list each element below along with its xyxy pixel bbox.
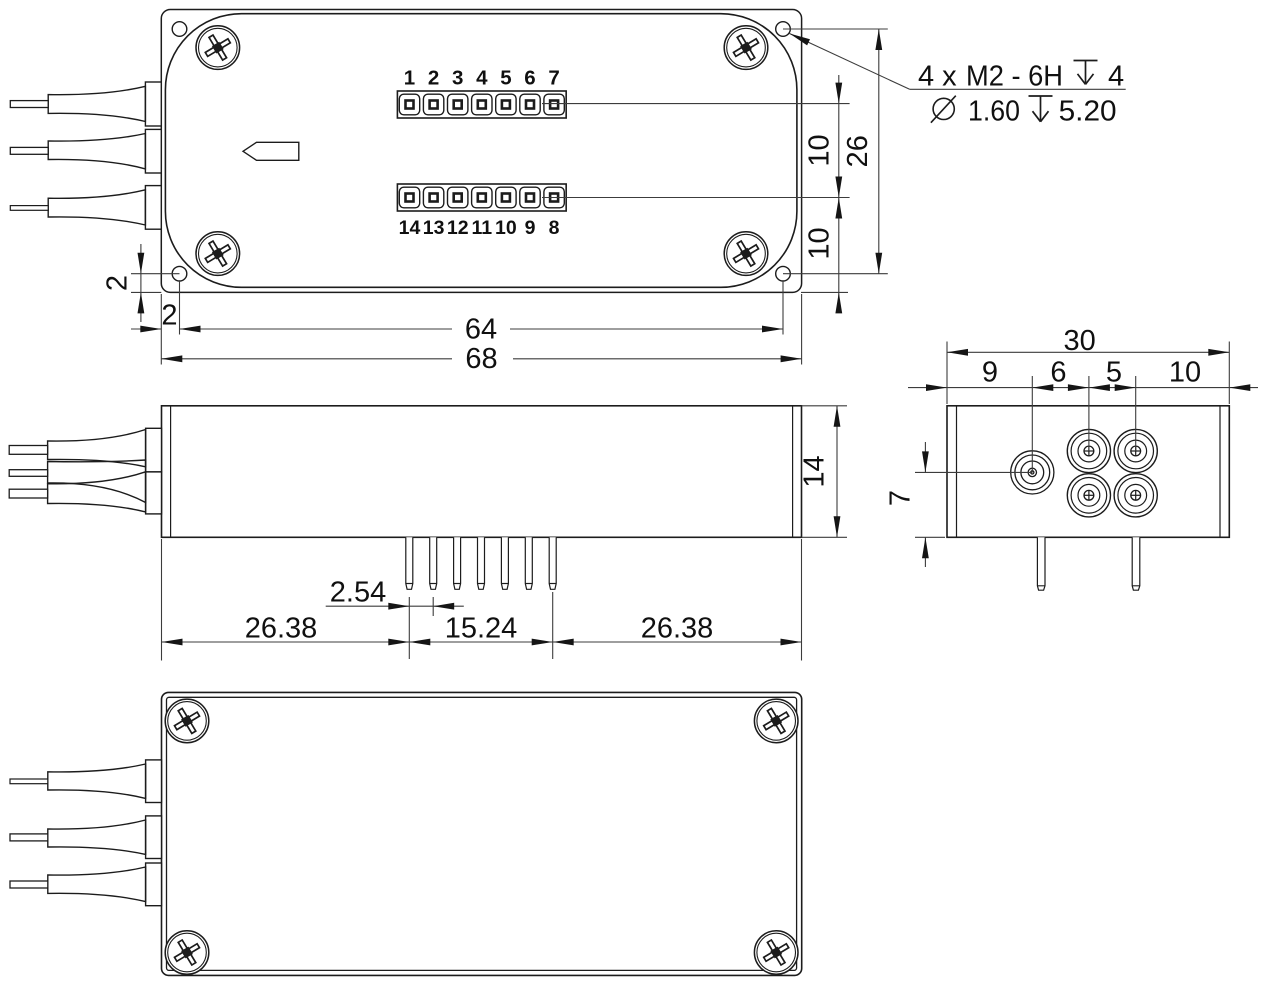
svg-text:14: 14: [799, 455, 831, 487]
svg-text:9: 9: [525, 217, 536, 239]
top view: lid (inner rounded cover): [165, 14, 797, 288]
side view: boot 3: [48, 472, 146, 512]
svg-text:8: 8: [549, 217, 560, 239]
svg-text:15.24: 15.24: [445, 613, 518, 645]
svg-text:4 x: 4 x: [918, 61, 957, 93]
top view: corner hole top-left: [172, 22, 187, 37]
dimension 26 line: [878, 29, 880, 274]
top view: screw bottom-right: [724, 232, 768, 276]
extension line below right case edge: [801, 294, 803, 365]
bottom view: screw bottom-left: [165, 931, 209, 975]
svg-text:6: 6: [524, 67, 535, 90]
top view: screw top-right: [724, 26, 768, 70]
svg-text:7: 7: [548, 67, 559, 90]
top view: fiber pigtail 2: [10, 129, 161, 173]
leader line to tapped hole callout: [790, 34, 910, 90]
svg-text:4: 4: [1108, 61, 1124, 93]
dimension 68 line: [161, 358, 452, 360]
side view: fiber 2: [9, 470, 47, 477]
dimension 26 arrows: [875, 29, 882, 50]
svg-text:30: 30: [1063, 325, 1095, 357]
top view: corner hole bottom-left: [172, 266, 187, 281]
side view: fiber 1: [9, 446, 47, 455]
side view: fiber 3: [9, 489, 47, 498]
top view: screw bottom-left: [196, 232, 240, 276]
dimension 7 extension lines: [915, 471, 1032, 473]
side view: fiber holder block upper: [146, 428, 162, 472]
end view: lid lip line right: [1219, 406, 1221, 538]
extension lines into ports: [1031, 376, 1033, 472]
top view: pin numbers 1-7: [404, 67, 560, 90]
extension line below left case edge: [160, 294, 162, 365]
side view: lid lip line right: [792, 406, 794, 538]
svg-text:14: 14: [399, 217, 421, 239]
svg-text:2: 2: [102, 275, 134, 291]
top view: corner hole bottom-right: [776, 266, 791, 281]
dimension 30 line and arrows: [947, 351, 1229, 353]
svg-text:12: 12: [447, 217, 469, 239]
callout text line 2: dia 1.60 depth 5.20: [931, 96, 956, 123]
svg-text:3: 3: [452, 67, 463, 90]
svg-text:2: 2: [161, 300, 177, 332]
end view: fiber port bottom-left of 2x2 array: [1067, 474, 1110, 517]
dimension 64 line: [180, 328, 453, 330]
side view: lid lip line left: [170, 406, 172, 538]
top view: fiber pigtail 3: [10, 186, 161, 230]
top view: 7-position pin header row 1 (pins 1-7): [397, 91, 566, 118]
dimension 30 extension lines: [946, 342, 948, 405]
top view: fiber pigtail 1 (boot + block + fiber): [10, 82, 161, 126]
svg-text:1: 1: [404, 67, 415, 90]
svg-text:64: 64: [465, 314, 497, 346]
svg-text:26.38: 26.38: [641, 613, 714, 645]
top view: pin numbers 14-8: [399, 217, 560, 239]
extension line pin row 2: [542, 197, 850, 199]
end view: header pin left: [1037, 537, 1045, 590]
bottom view: fiber pigtail 1: [10, 760, 162, 803]
svg-text:6: 6: [1050, 357, 1066, 389]
dimension 2 (vertical) line and arrows: [140, 244, 142, 322]
svg-text:13: 13: [423, 217, 445, 239]
svg-text:11: 11: [471, 217, 492, 239]
top view: corner hole top-right: [776, 22, 791, 37]
end view: fiber port top-left of 2x2 array: [1067, 429, 1110, 472]
svg-text:5: 5: [1106, 357, 1122, 389]
svg-text:10: 10: [804, 227, 836, 259]
svg-text:10: 10: [495, 217, 517, 239]
dimension 10 arrows: [835, 83, 842, 104]
extension line pin row 1: [542, 103, 850, 105]
dimension 7 line and arrows: [924, 442, 926, 472]
bottom view: screw bottom-right: [754, 931, 798, 975]
bottom dimension line of side view: [162, 641, 802, 643]
svg-text:1.60: 1.60: [968, 96, 1020, 128]
dimension row arrows: [926, 384, 947, 391]
extension line below left hole: [179, 281, 181, 335]
end view: header pin right: [1132, 537, 1140, 590]
side view: fiber holder block lower: [146, 472, 162, 514]
svg-text:2.54: 2.54: [330, 577, 386, 609]
svg-text:4: 4: [476, 67, 488, 90]
svg-text:2: 2: [428, 67, 439, 90]
dimension 10 (row1 to row2) and 10 (row2 to case edge) vertical line: [838, 75, 840, 312]
dimension row 9 6 5 10 line: [908, 387, 1258, 389]
svg-text:9: 9: [982, 357, 998, 389]
bottom view: screw top-left: [165, 699, 209, 743]
end view: fiber port top-right of 2x2 array: [1114, 429, 1157, 472]
extension line from bottom-right hole: [783, 273, 888, 275]
svg-text:5: 5: [500, 67, 511, 90]
bottom view: case outline: [162, 692, 802, 975]
top view: 7-position pin header row 2 (pins 8-14): [397, 184, 566, 211]
dimension 14 extension lines: [802, 405, 848, 407]
bottom view: base plate inner edge: [167, 697, 797, 970]
bottom view: screw top-right: [754, 699, 798, 743]
extension line below right hole: [782, 281, 784, 335]
top view: screw top-left: [196, 26, 240, 70]
end view: single fiber collimator port: [1011, 451, 1054, 494]
side view: boot 2: [48, 460, 146, 503]
end view: fiber port bottom-right of 2x2 array: [1114, 474, 1157, 517]
svg-text:26: 26: [842, 135, 874, 167]
dimension 2 (horizontal) arrow and text: [131, 328, 161, 330]
extension line of case bottom edge (right side): [801, 291, 848, 293]
svg-text:7: 7: [885, 490, 917, 506]
end view: module body: [947, 406, 1229, 538]
bottom view: fiber pigtail 3: [10, 863, 162, 906]
svg-text:5.20: 5.20: [1059, 96, 1117, 128]
side view: boot 1: [48, 430, 146, 467]
svg-text:M2 - 6H: M2 - 6H: [966, 61, 1063, 93]
dimension 2.54 line and arrows: [326, 605, 410, 607]
end view: lid lip line left: [956, 406, 958, 538]
svg-text:10: 10: [804, 134, 836, 166]
bottom view: fiber pigtail 2: [10, 816, 162, 859]
extension line from top-right hole: [783, 28, 888, 30]
top view: module case outline: [161, 10, 801, 293]
side view: 7 header pins: [406, 537, 556, 589]
extension lines bottom-left (hole center and case edge): [131, 273, 180, 275]
svg-text:10: 10: [1169, 357, 1201, 389]
extension lines below side view: [161, 539, 163, 661]
svg-text:68: 68: [465, 343, 497, 375]
svg-text:26.38: 26.38: [245, 613, 318, 645]
dimension 14 line and arrows: [836, 406, 838, 538]
top view: direction arrow symbol: [243, 142, 299, 160]
side view: module body: [162, 406, 802, 538]
